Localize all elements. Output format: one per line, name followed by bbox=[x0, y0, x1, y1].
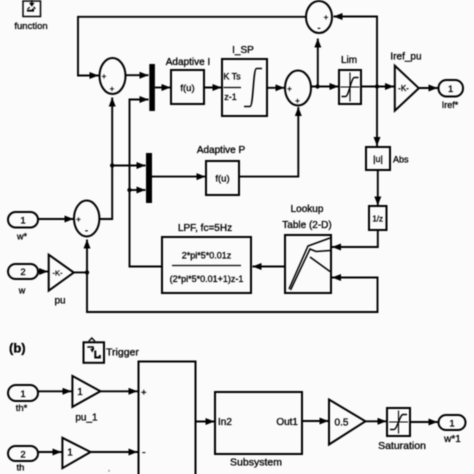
svg-text:+: + bbox=[141, 388, 147, 399]
wire w feedback to lookup table second input bbox=[87, 272, 378, 312]
wire gain pu_1 to sum block plus input bbox=[100, 390, 137, 392]
svg-text:1: 1 bbox=[67, 448, 73, 459]
svg-text:2: 2 bbox=[20, 450, 25, 461]
svg-text:th: th bbox=[17, 463, 25, 474]
svg-text:-K-: -K- bbox=[398, 84, 409, 93]
block Saturation bbox=[387, 408, 410, 436]
svg-text:Lim: Lim bbox=[341, 55, 357, 66]
node junction (317.5,86.5) bbox=[315, 84, 319, 88]
svg-text:w*: w* bbox=[16, 232, 27, 242]
node junction (112,165.5) bbox=[110, 163, 114, 167]
wire gain 0.5 to Saturation bbox=[365, 420, 386, 422]
outport 1 Iref* bbox=[439, 80, 464, 97]
svg-text:Abs: Abs bbox=[393, 155, 409, 165]
wire Lim input up to top sum bottom input bbox=[317, 39, 319, 87]
wire inport th* to gain pu_1 bbox=[38, 390, 72, 392]
svg-text:Iref_pu: Iref_pu bbox=[390, 52, 421, 63]
top sum S4 bbox=[306, 1, 332, 33]
svg-text:pu_1: pu_1 bbox=[75, 413, 98, 424]
svg-text:2: 2 bbox=[20, 267, 25, 278]
inport 1 w* bbox=[8, 212, 38, 228]
wire sum S2 to Lim bbox=[311, 86, 339, 88]
block I_SP discrete integrator bbox=[222, 59, 267, 116]
svg-text:f(u): f(u) bbox=[215, 174, 229, 185]
wire inport w to gain pu bbox=[38, 271, 48, 273]
svg-text:Table (2-D): Table (2-D) bbox=[282, 220, 331, 231]
svg-text:Subsystem: Subsystem bbox=[230, 457, 282, 469]
trigger port block "function" bbox=[23, 0, 41, 17]
wire gain pu_2 to sum block minus input bbox=[91, 451, 138, 453]
svg-text:-: - bbox=[85, 226, 88, 236]
svg-text:Lookup: Lookup bbox=[291, 204, 324, 215]
svg-text:0.5: 0.5 bbox=[335, 418, 349, 429]
sum S3 bbox=[74, 201, 99, 237]
svg-text:+: + bbox=[295, 97, 300, 106]
wire gain pu to sum S3 minus input bbox=[74, 240, 87, 273]
svg-text:1: 1 bbox=[449, 419, 454, 430]
svg-text:Trigger: Trigger bbox=[106, 347, 139, 359]
svg-text:LPF, fc=5Hz: LPF, fc=5Hz bbox=[178, 223, 232, 234]
sum S1 bbox=[100, 58, 126, 94]
wire LPF branch to mux M2 bottom input bbox=[130, 189, 146, 191]
svg-text:2*pi*5*0.01z: 2*pi*5*0.01z bbox=[182, 251, 232, 261]
svg-text:Saturation: Saturation bbox=[378, 440, 426, 452]
svg-text:I_SP: I_SP bbox=[232, 45, 254, 56]
svg-text:function: function bbox=[14, 21, 47, 32]
svg-text:Out1: Out1 bbox=[276, 417, 298, 428]
mux M2 bbox=[146, 153, 152, 203]
svg-text:+: + bbox=[110, 85, 115, 94]
svg-text:w*1: w*1 bbox=[443, 434, 461, 445]
wire Lim to gain Iref_pu bbox=[361, 86, 394, 88]
wire Lim output up to top sum right input bbox=[334, 17, 378, 87]
svg-text:w: w bbox=[18, 286, 26, 296]
svg-text:(2*pi*5*0.01+1)z-1: (2*pi*5*0.01+1)z-1 bbox=[170, 274, 244, 284]
svg-text:In2: In2 bbox=[218, 417, 232, 428]
block Abs bbox=[366, 147, 390, 170]
svg-text:+: + bbox=[102, 72, 107, 81]
svg-text:+: + bbox=[287, 85, 292, 94]
wire speed error to mux M2 top input bbox=[112, 165, 145, 167]
wire Subsystem Out1 to gain 0.5 bbox=[302, 420, 329, 422]
inport 1 th* bbox=[8, 385, 38, 401]
wire Abs to 1/z bbox=[377, 170, 379, 206]
wire f(u) to I_SP bbox=[204, 87, 222, 89]
inport 2 th bbox=[8, 446, 38, 461]
wire lookup table to LPF bbox=[253, 266, 286, 268]
wire mux M1 to Adaptive I f(u) bbox=[155, 87, 171, 89]
svg-text:+: + bbox=[76, 215, 81, 224]
svg-text:K Ts: K Ts bbox=[223, 72, 241, 82]
wire inport w* to sum S3 bbox=[38, 218, 74, 220]
cut-off label pu_2 bbox=[108, 470, 110, 472]
wire Adaptive P f(u) output to sum S2 bottom input bbox=[239, 107, 298, 177]
svg-text:pu: pu bbox=[54, 296, 65, 307]
svg-text:Adaptive I: Adaptive I bbox=[166, 57, 210, 68]
inport 2 w bbox=[8, 264, 38, 279]
svg-text:1: 1 bbox=[20, 389, 25, 400]
gain 0.5 bbox=[329, 400, 365, 445]
wire sum S1 output to mux M1 top input bbox=[126, 74, 149, 76]
svg-text:th*: th* bbox=[16, 403, 28, 414]
gain pu bbox=[49, 255, 74, 291]
wire antiwindup feedback (top sum output to sum S1 left input) bbox=[78, 17, 306, 76]
wire Lim output down to Abs bbox=[376, 87, 378, 147]
block Lim saturation bbox=[339, 70, 361, 104]
rectangular sum block (cut off at bottom) bbox=[139, 362, 196, 474]
gain pu_2 bbox=[62, 438, 90, 468]
block Subsystem bbox=[215, 392, 302, 454]
sum S2 bbox=[285, 71, 311, 106]
svg-text:Adaptive P: Adaptive P bbox=[197, 145, 246, 156]
gain pu_1 bbox=[72, 376, 100, 407]
outport 1 w*1 bbox=[439, 415, 466, 430]
block 1/z unit delay bbox=[369, 206, 387, 230]
block f(u) Adaptive P bbox=[206, 161, 239, 195]
svg-text:z-1: z-1 bbox=[224, 92, 237, 102]
block f(u) Adaptive I bbox=[171, 70, 204, 104]
svg-text:+: + bbox=[324, 13, 329, 22]
svg-text:-: - bbox=[142, 447, 146, 459]
block lookup table 2-D bbox=[285, 235, 331, 293]
svg-text:1: 1 bbox=[448, 84, 453, 95]
svg-text:1/z: 1/z bbox=[372, 215, 383, 224]
svg-text:(b): (b) bbox=[9, 341, 26, 356]
block LPF transfer function bbox=[162, 237, 251, 293]
wire sum block to Subsystem In2 bbox=[196, 421, 215, 423]
wire inport th to gain 1 bbox=[38, 451, 62, 453]
svg-text:1: 1 bbox=[20, 216, 25, 227]
wire gain to outport Iref bbox=[419, 87, 438, 89]
wire I_SP to sum S2 bbox=[267, 87, 284, 89]
svg-text:-: - bbox=[318, 23, 321, 33]
node junction (87,272.4) bbox=[85, 270, 89, 274]
svg-text:Iref*: Iref* bbox=[442, 100, 459, 110]
wire LPF output up to mux M1 bottom input bbox=[130, 100, 163, 267]
wire 1/z to lookup table first input bbox=[332, 230, 378, 247]
wire sum S3 output up to sum S1 bottom input bbox=[99, 98, 112, 220]
mux M1 bbox=[149, 64, 155, 111]
wire Saturation to outport w*1 bbox=[410, 421, 438, 423]
svg-text:1: 1 bbox=[77, 387, 83, 398]
node junction (129.5,190) bbox=[127, 188, 131, 192]
trigger block Trigger bbox=[84, 338, 105, 363]
wire mux M2 to Adaptive P f(u) bbox=[152, 176, 206, 178]
svg-text:|u|: |u| bbox=[373, 154, 383, 164]
gain Iref_pu bbox=[395, 66, 419, 111]
svg-text:f(u): f(u) bbox=[180, 83, 194, 94]
node junction (377,86.5) bbox=[375, 84, 379, 88]
svg-text:-K-: -K- bbox=[53, 269, 64, 278]
